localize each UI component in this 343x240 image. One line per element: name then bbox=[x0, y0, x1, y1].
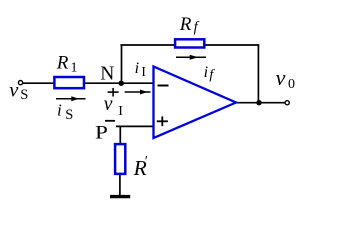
node output bbox=[256, 100, 261, 105]
label vo bbox=[276, 65, 295, 92]
op-amp U1 bbox=[154, 67, 237, 139]
wire down to resistor R' bbox=[119, 126, 121, 144]
svg-text:R: R bbox=[179, 14, 192, 35]
current arrow iI bbox=[125, 90, 151, 95]
svg-text:v: v bbox=[276, 65, 286, 90]
svg-text:0: 0 bbox=[288, 77, 295, 92]
terminal vo bbox=[285, 101, 289, 105]
current arrow if bbox=[176, 55, 206, 60]
label Rf bbox=[179, 14, 200, 35]
plus polarity at N bbox=[108, 88, 119, 97]
node N bbox=[119, 81, 124, 86]
resistor Rf bbox=[175, 39, 204, 47]
svg-text:N: N bbox=[100, 64, 114, 85]
label R' bbox=[133, 154, 148, 181]
label vS bbox=[9, 80, 28, 104]
wire feedback right vertical down to output bbox=[257, 45, 259, 103]
svg-text:′: ′ bbox=[145, 154, 148, 170]
minus input sign bbox=[158, 85, 169, 87]
wire P to plus input bbox=[116, 125, 154, 127]
svg-text:i: i bbox=[57, 100, 62, 119]
wire feedback left vertical from node N bbox=[121, 45, 123, 83]
svg-text:I: I bbox=[118, 104, 123, 119]
svg-text:v: v bbox=[104, 94, 113, 115]
label iS bbox=[57, 100, 73, 123]
wire feedback top horizontal bbox=[120, 44, 259, 46]
svg-text:i: i bbox=[135, 60, 139, 77]
label R1 bbox=[56, 52, 78, 75]
resistor R1 bbox=[54, 77, 84, 88]
label vI bbox=[104, 94, 123, 119]
svg-text:P: P bbox=[95, 122, 108, 144]
minus polarity at P bbox=[105, 120, 115, 122]
svg-text:S: S bbox=[20, 87, 28, 103]
label iI bbox=[135, 60, 147, 79]
current arrow iS bbox=[56, 96, 86, 101]
ground bbox=[110, 195, 130, 198]
wire output to terminal bbox=[235, 102, 285, 104]
svg-text:1: 1 bbox=[71, 61, 78, 76]
svg-text:I: I bbox=[141, 64, 146, 79]
svg-text:R: R bbox=[56, 52, 69, 73]
terminal vs bbox=[18, 81, 22, 85]
plus input sign bbox=[157, 116, 168, 126]
resistor R' bbox=[115, 144, 125, 174]
svg-text:S: S bbox=[65, 107, 73, 123]
wire input vs to op-amp minus input bbox=[23, 82, 154, 84]
svg-text:v: v bbox=[9, 80, 19, 102]
wire R' to ground bbox=[119, 174, 121, 196]
svg-text:i: i bbox=[204, 64, 208, 81]
label if bbox=[204, 64, 216, 83]
